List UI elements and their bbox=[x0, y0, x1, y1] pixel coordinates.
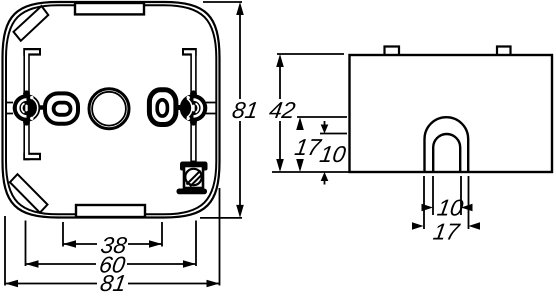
left claw bracket bbox=[23, 52, 41, 157]
right claw bracket bbox=[182, 48, 197, 56]
svg-text:10: 10 bbox=[318, 141, 348, 167]
cable clamp bottom bar bbox=[177, 189, 208, 195]
bottom knockout bbox=[76, 205, 145, 217]
dim 81 bottom bbox=[5, 283, 220, 285]
dim 81 vertical: arrows bbox=[236, 2, 244, 15]
right fixing screw bbox=[180, 90, 208, 125]
horizontal screw slot bbox=[45, 93, 78, 123]
cable entry inner arch bbox=[433, 134, 460, 172]
dim 81 vertical: dimension line bbox=[239, 8, 241, 212]
svg-text:81: 81 bbox=[230, 97, 260, 123]
dim 60 bbox=[26, 263, 197, 265]
dim 10 bottom arrows bbox=[422, 204, 434, 211]
front view inner contour bbox=[6, 5, 216, 214]
top knockout bbox=[75, 3, 144, 14]
svg-text:42: 42 bbox=[267, 97, 297, 123]
corner notch top-left bbox=[14, 6, 49, 41]
side view tab right bbox=[497, 47, 511, 56]
dim 17 left: extension line bbox=[297, 116, 347, 118]
vertical screw slot bbox=[149, 90, 176, 125]
dim 42: dimension line bbox=[279, 61, 281, 165]
side view tab left bbox=[385, 47, 400, 56]
screw-to-slot link left bbox=[40, 105, 45, 110]
svg-text:17: 17 bbox=[431, 219, 462, 245]
cable clamp top bar bbox=[180, 162, 208, 167]
slot-to-screw link right bbox=[177, 105, 182, 110]
bottom dims: extension lines bbox=[5, 188, 220, 286]
cable entry outer arch bbox=[425, 117, 469, 172]
cable clamp body bbox=[184, 166, 203, 188]
bottom arch extension lines bbox=[424, 176, 469, 229]
cable clamp screw circle bbox=[185, 169, 201, 185]
dim 17 left arrows bbox=[296, 117, 304, 130]
right wall tab bbox=[206, 103, 217, 114]
dim 38 bbox=[63, 243, 162, 245]
front view outer contour bbox=[3, 2, 220, 218]
dim 17 bottom arrows bbox=[412, 222, 424, 229]
dim 10 left: extension line bbox=[320, 133, 347, 135]
side view body bbox=[350, 55, 553, 172]
central circle bbox=[89, 89, 129, 129]
dim 42: extension line top bbox=[277, 53, 344, 55]
left wall tab bbox=[6, 103, 14, 114]
dim 10 left arrows bbox=[321, 125, 329, 134]
svg-text:81: 81 bbox=[98, 270, 128, 296]
dim 81 vertical: extension lines bbox=[200, 2, 242, 218]
left fixing screw bbox=[13, 90, 41, 125]
corner notch bottom-left bbox=[10, 174, 48, 213]
cable clamp hatching bbox=[187, 171, 202, 187]
side view bottom extension bbox=[272, 171, 350, 173]
svg-text:10: 10 bbox=[435, 195, 465, 221]
